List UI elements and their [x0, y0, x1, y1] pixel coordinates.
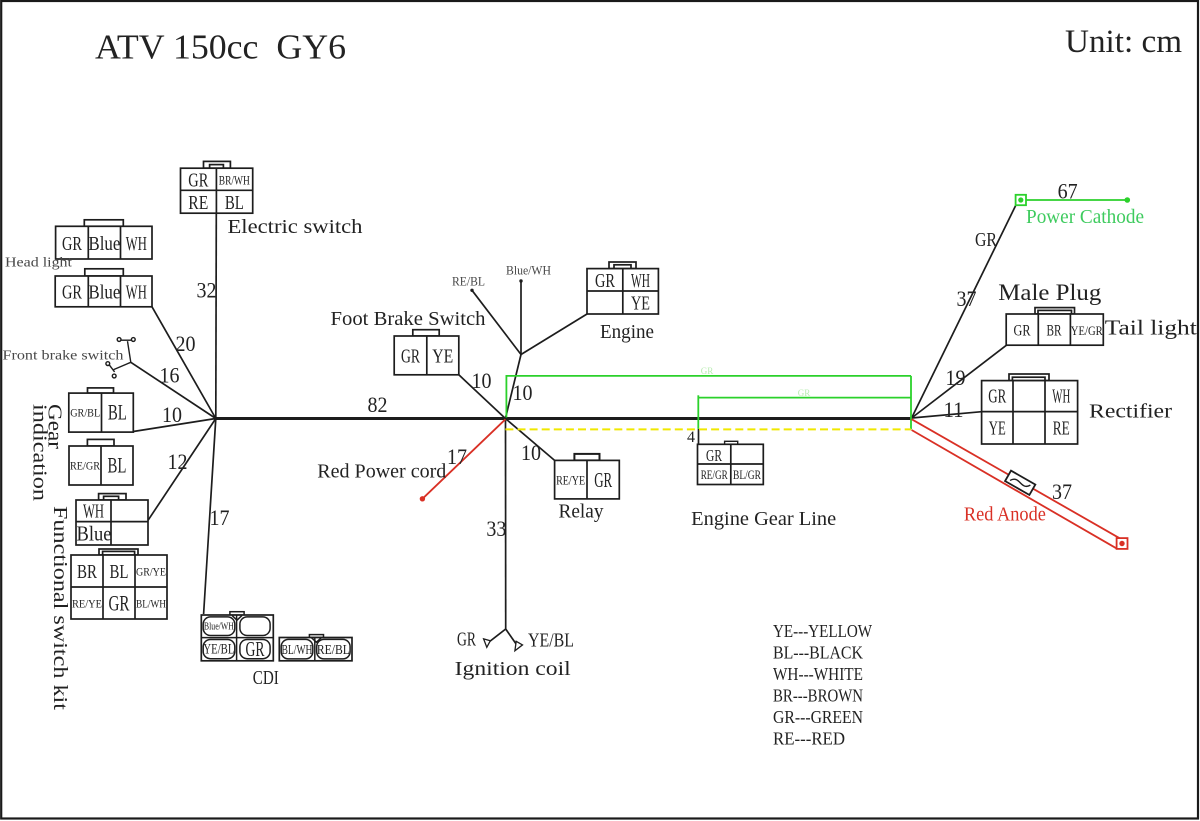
green loop 1	[506, 376, 911, 418]
CDI connector right group	[279, 635, 352, 661]
svg-text:Blue/WH: Blue/WH	[506, 263, 551, 278]
wire node RE/BL	[472, 290, 521, 354]
wire 32 electric switch stem	[215, 213, 218, 418]
svg-text:37: 37	[957, 286, 977, 311]
ignition coil left branch	[489, 629, 506, 642]
svg-text:RE/GR: RE/GR	[701, 468, 728, 482]
svg-text:RE: RE	[188, 192, 208, 214]
svg-text:WH: WH	[126, 233, 147, 255]
svg-text:YE/GR: YE/GR	[1071, 323, 1103, 338]
svg-text:Engine Gear Line: Engine Gear Line	[691, 508, 836, 530]
svg-text:GR: GR	[701, 366, 714, 376]
relay connector	[555, 454, 620, 499]
svg-text:Relay: Relay	[559, 501, 604, 523]
svg-text:YE/BL: YE/BL	[203, 642, 234, 658]
svg-text:Ignition coil: Ignition coil	[455, 658, 572, 680]
power cathode square dot	[1018, 197, 1023, 202]
svg-text:Tail light: Tail light	[1105, 316, 1197, 340]
svg-text:Head light: Head light	[5, 255, 72, 270]
svg-text:Front brake switch: Front brake switch	[3, 348, 124, 363]
svg-text:WH: WH	[1052, 386, 1070, 408]
ignition coil terminal right	[515, 641, 523, 651]
power cathode wire 67	[1026, 199, 1127, 201]
svg-text:BL/WH: BL/WH	[282, 643, 313, 658]
svg-text:GR: GR	[1014, 322, 1032, 339]
svg-text:BR: BR	[1047, 322, 1062, 339]
green right vertical	[910, 376, 912, 430]
wire 16 front brake switch	[131, 362, 216, 418]
svg-text:67: 67	[1058, 179, 1078, 204]
svg-text:20: 20	[176, 331, 196, 356]
svg-text:BL: BL	[108, 400, 127, 425]
svg-text:BL: BL	[108, 453, 127, 478]
wire 10 node stem	[505, 355, 521, 419]
svg-text:BL---BLACK: BL---BLACK	[773, 643, 863, 663]
svg-text:Power Cathode: Power Cathode	[1026, 206, 1144, 228]
svg-text:BR/WH: BR/WH	[219, 174, 250, 188]
wire 11 rectifier	[912, 412, 982, 418]
ignition coil terminal left	[484, 639, 491, 647]
svg-text:17: 17	[447, 444, 467, 469]
svg-text:12: 12	[168, 449, 188, 474]
gear indication connector 1	[69, 388, 134, 432]
svg-text:BR---BROWN: BR---BROWN	[773, 686, 863, 706]
diode on red anode wire	[1005, 471, 1035, 495]
svg-text:GR: GR	[975, 229, 998, 251]
wire 10 relay	[505, 419, 554, 461]
svg-text:GR: GR	[246, 637, 265, 661]
red power cord wire 17	[422, 419, 505, 499]
svg-text:WH: WH	[631, 270, 650, 292]
svg-text:11: 11	[944, 397, 964, 422]
svg-text:Rectifier: Rectifier	[1089, 401, 1172, 423]
svg-text:Blue: Blue	[77, 522, 112, 546]
ignition coil right branch	[506, 629, 518, 646]
svg-text:RE/BL: RE/BL	[452, 274, 485, 289]
svg-text:BL/WH: BL/WH	[136, 596, 166, 610]
wire GR 37 power cathode	[912, 205, 1016, 418]
wire 19 male plug	[912, 345, 1007, 418]
svg-text:Blue/WH: Blue/WH	[204, 622, 234, 633]
svg-text:BR: BR	[77, 561, 97, 583]
svg-text:Male Plug: Male Plug	[998, 280, 1102, 305]
svg-text:GR: GR	[62, 282, 82, 304]
svg-text:YE: YE	[989, 418, 1006, 440]
svg-text:Engine: Engine	[600, 321, 654, 343]
svg-text:19: 19	[946, 365, 966, 390]
power cathode square	[1016, 195, 1026, 205]
svg-text:Blue: Blue	[88, 282, 120, 304]
red power cord end dot	[420, 496, 425, 501]
svg-text:16: 16	[160, 363, 180, 388]
svg-text:RE/BL: RE/BL	[317, 643, 350, 658]
svg-text:37: 37	[1052, 479, 1072, 504]
wire 33 ignition coil	[505, 419, 507, 630]
svg-text:YE/BL: YE/BL	[528, 630, 574, 652]
red anode wire bottom	[912, 430, 1117, 549]
head light connector 1	[56, 220, 152, 259]
svg-text:10: 10	[513, 380, 533, 405]
svg-text:WH: WH	[126, 282, 147, 304]
svg-text:YE: YE	[432, 346, 453, 368]
svg-text:33: 33	[486, 516, 506, 541]
svg-text:RE/GR: RE/GR	[70, 459, 100, 473]
functional switch kit 3x2 connector	[71, 549, 167, 619]
svg-text:10: 10	[521, 440, 541, 465]
wire 17 CDI	[204, 419, 216, 615]
wire node Blue/WH	[520, 281, 522, 355]
red anode square	[1117, 538, 1128, 549]
svg-text:32: 32	[197, 278, 217, 303]
node dot RE/BL	[470, 289, 473, 292]
green loop 2 left vertical	[697, 395, 699, 429]
wire 4 engine gear drop	[698, 429, 700, 445]
male plug connector	[1006, 308, 1103, 346]
main harness wire 82	[216, 417, 912, 420]
svg-text:GR/YE: GR/YE	[136, 564, 166, 578]
wire 10 gear indication	[133, 419, 216, 432]
svg-text:GR: GR	[401, 346, 420, 368]
power cathode end dot	[1125, 197, 1131, 203]
svg-text:ATV 150cc GY6: ATV 150cc GY6	[95, 28, 346, 67]
CDI connector left group	[201, 612, 273, 661]
svg-text:BL: BL	[110, 561, 129, 583]
foot brake switch connector	[394, 330, 459, 375]
rectifier connector	[982, 374, 1078, 444]
svg-text:GR---GREEN: GR---GREEN	[773, 707, 863, 727]
green loop 2 horizontal	[698, 397, 911, 399]
svg-text:YE: YE	[631, 292, 650, 314]
svg-text:Red Power cord: Red Power cord	[317, 461, 446, 483]
electric switch connector	[181, 161, 253, 213]
wire node to engine	[521, 314, 587, 355]
svg-text:Blue: Blue	[88, 233, 120, 255]
front brake switch symbol	[106, 338, 135, 378]
svg-text:Unit: cm: Unit: cm	[1065, 24, 1182, 60]
svg-text:BL/GR: BL/GR	[733, 468, 762, 482]
svg-text:Functional switch kit: Functional switch kit	[49, 506, 71, 711]
svg-text:GR: GR	[188, 169, 208, 191]
svg-text:YE---YELLOW: YE---YELLOW	[773, 621, 872, 641]
svg-text:GR: GR	[457, 629, 476, 651]
gear indication connector 2	[69, 439, 133, 485]
svg-text:GR: GR	[62, 233, 82, 255]
svg-text:WH---WHITE: WH---WHITE	[773, 664, 863, 684]
svg-text:CDI: CDI	[253, 667, 279, 689]
svg-text:WH: WH	[83, 501, 104, 523]
svg-text:GR: GR	[109, 590, 130, 615]
engine connector	[587, 262, 658, 314]
wire 12 functional switch	[148, 419, 216, 521]
svg-text:RE: RE	[1053, 418, 1070, 440]
functional switch WH/Blue connector	[76, 494, 148, 545]
head light connector 2	[55, 269, 152, 307]
svg-text:82: 82	[368, 392, 388, 417]
svg-text:GR: GR	[594, 468, 612, 492]
svg-text:GR: GR	[988, 386, 1006, 408]
red anode square dot	[1119, 541, 1124, 546]
svg-text:GR: GR	[798, 388, 811, 398]
svg-text:Electric switch: Electric switch	[228, 216, 363, 238]
svg-text:10: 10	[472, 368, 492, 393]
svg-text:GR: GR	[706, 446, 722, 465]
svg-text:indication: indication	[29, 404, 51, 501]
wire 20 head light	[152, 307, 216, 419]
svg-text:Foot Brake Switch: Foot Brake Switch	[331, 308, 486, 330]
yellow dashed wire	[505, 428, 911, 430]
wire 10 foot brake switch	[459, 375, 506, 419]
svg-text:RE/YE: RE/YE	[72, 596, 102, 610]
svg-text:17: 17	[210, 505, 230, 530]
svg-text:10: 10	[162, 402, 182, 427]
svg-text:BL: BL	[225, 192, 244, 214]
svg-text:4: 4	[687, 429, 695, 446]
engine gear line connector	[698, 441, 764, 484]
svg-text:RE/YE: RE/YE	[556, 472, 585, 487]
node dot Blue/WH	[519, 279, 522, 282]
svg-text:GR: GR	[595, 270, 615, 292]
svg-text:GR/BL: GR/BL	[70, 406, 100, 420]
svg-text:RE---RED: RE---RED	[773, 729, 845, 749]
red anode wire top	[912, 419, 1122, 539]
svg-text:Red Anode: Red Anode	[964, 504, 1046, 526]
